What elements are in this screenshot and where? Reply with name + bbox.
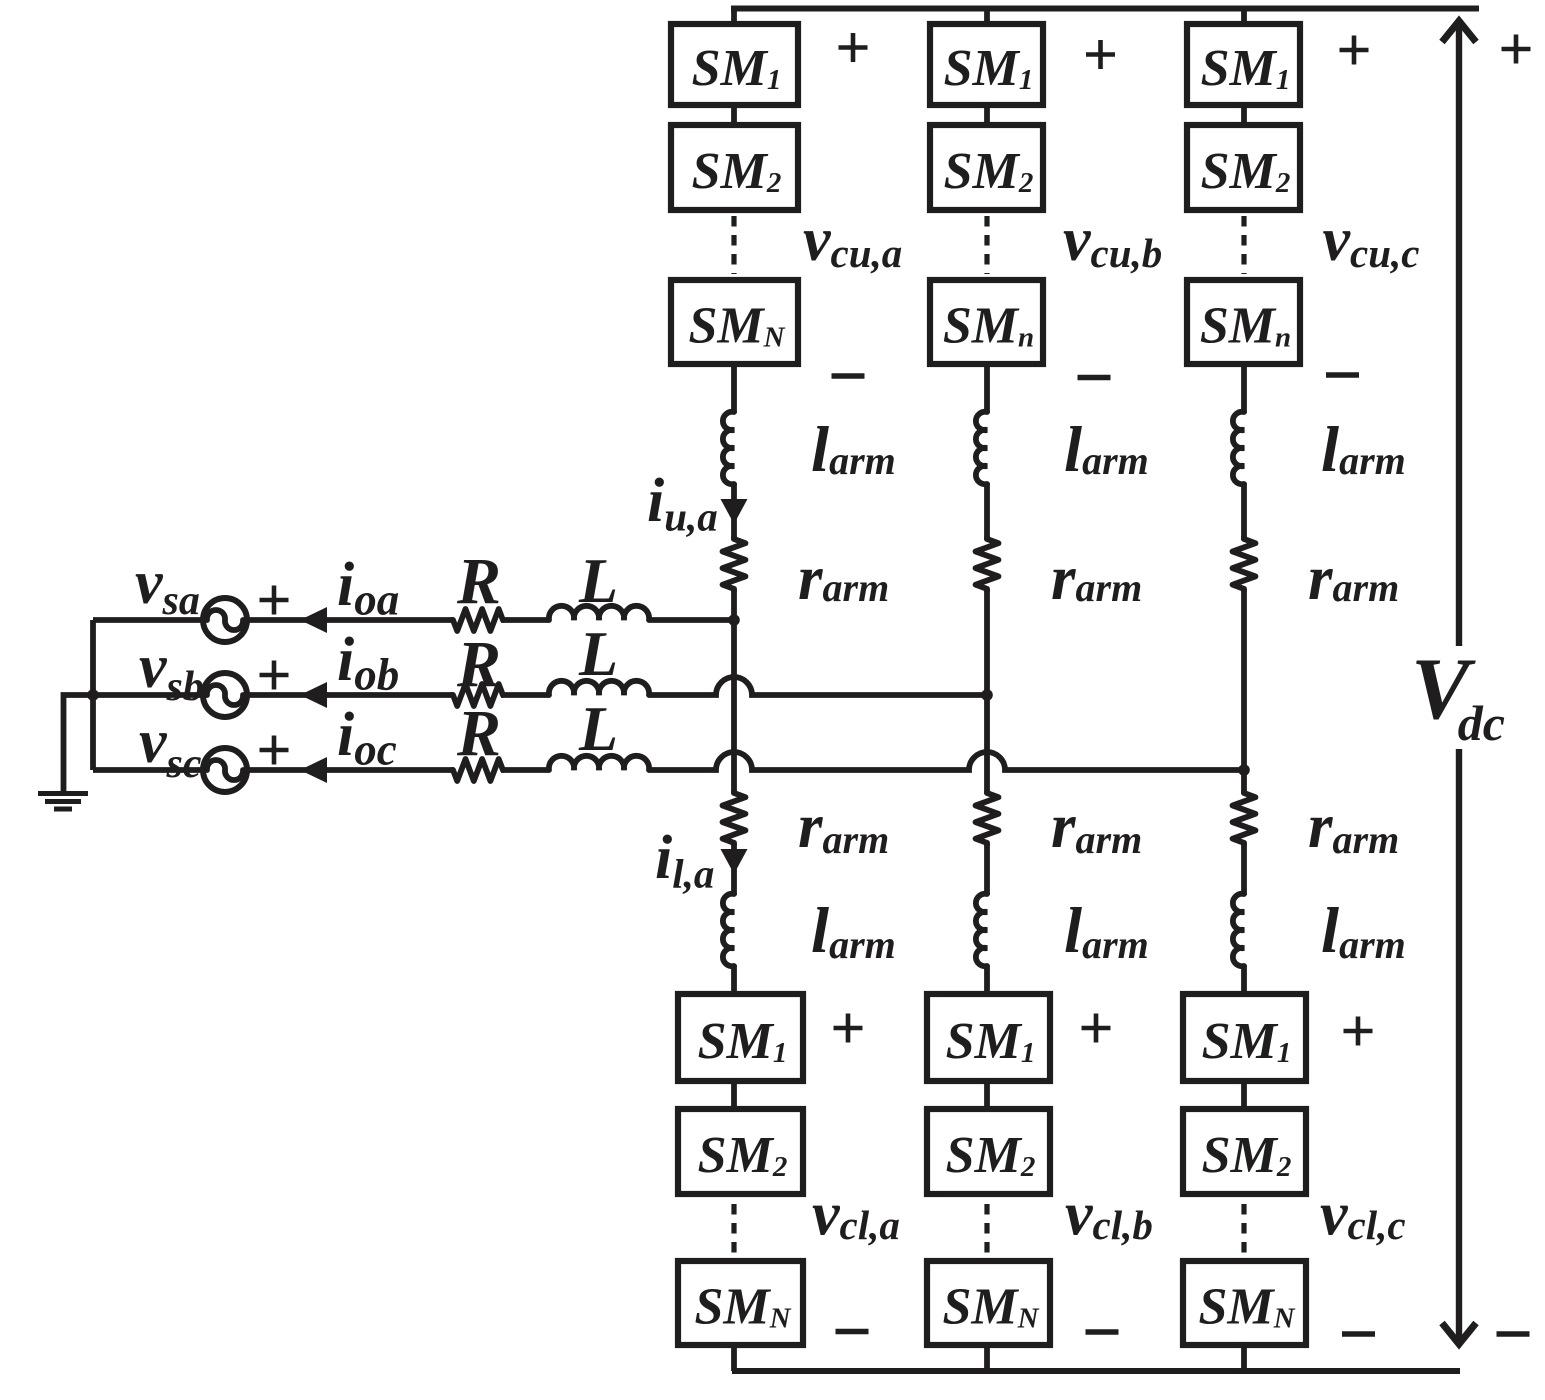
submodule SM1 box (upper arm, phase a): [671, 24, 798, 105]
label - (lower arm capacitor voltage, phase c): [1342, 1331, 1375, 1337]
AC source v_sc circle: [203, 748, 247, 792]
wire: left vertical bus joining three sources: [90, 620, 96, 770]
label - (lower arm capacitor voltage, phase b): [1086, 1329, 1119, 1335]
inductor l_arm (upper arm, phase a): [723, 412, 734, 484]
inductor l_arm (upper arm, phase b): [976, 412, 987, 484]
wire: dashed continuation SM2..SMN (lower arm, phase b): [984, 1204, 989, 1254]
ground symbol bar 1: [38, 791, 88, 796]
label - (upper arm capacitor voltage, phase a): [832, 373, 865, 379]
resistor R (phase b): [451, 684, 503, 706]
wire: dashed continuation SM2..SMN (lower arm, phase a): [731, 1204, 736, 1254]
svg-text:rarm: rarm: [798, 543, 889, 613]
svg-text:rarm: rarm: [1051, 543, 1142, 613]
submodule SM1 box (lower arm, phase c): [1183, 994, 1306, 1081]
wire: neutral junction to ground stem: [64, 695, 94, 791]
svg-text:vcl,c: vcl,c: [1320, 1181, 1406, 1249]
label + (upper arm capacitor voltage, phase b): [1086, 40, 1115, 69]
wire: dashed continuation SM2..SMN (upper arm, phase c): [1241, 216, 1246, 274]
wire: SM1-SM2 link (lower arm, phase c): [1241, 1078, 1247, 1112]
label - (upper arm capacitor voltage, phase c): [1326, 372, 1359, 378]
svg-text:larm: larm: [811, 895, 896, 967]
wire: inductor to resistor with current arrow (upper arm, phase a): [731, 483, 737, 540]
wire: SM1-SM2 link (upper arm, phase b): [984, 102, 990, 128]
wire: resistor to AC node (upper arm, phase a): [731, 589, 737, 620]
wire: inductor L to node c (hops over phase-a and phase-b legs): [649, 752, 1244, 770]
wire: lower SMN to bottom rail (phase c): [1241, 1342, 1247, 1371]
svg-text:vsa: vsa: [135, 549, 200, 624]
wire: top rail to upper SM1 phase c: [1241, 9, 1247, 28]
svg-text:L: L: [578, 693, 618, 764]
wire: top rail to upper SM1 phase b: [984, 9, 990, 28]
submodule SMN box (upper arm, phase a): [671, 280, 798, 364]
Vdc arrow lower chevron head: [1442, 1323, 1476, 1344]
wire: SM1-SM2 link (lower arm, phase b): [984, 1078, 990, 1112]
wire: bus to source v_sa: [93, 617, 204, 623]
svg-text:vcu,b: vcu,b: [1063, 206, 1162, 276]
submodule SM1 box (upper arm, phase c): [1187, 24, 1300, 105]
submodule SM2 box (upper arm, phase a): [671, 125, 798, 210]
wire: SM1-SM2 link (lower arm, phase a): [731, 1078, 737, 1112]
wire: lower SMN to bottom rail (phase a): [731, 1342, 737, 1371]
label + (source v_sa polarity): [260, 586, 289, 615]
svg-text:R: R: [456, 628, 501, 701]
resistor r_arm (upper arm, phase c): [1233, 537, 1256, 591]
wire: bus to source v_sc: [93, 767, 204, 773]
Vdc measurement arrow line (lower segment): [1456, 749, 1462, 1343]
node a (AC terminal junction): [728, 614, 740, 626]
wire: source to resistor R (phase b): [246, 692, 454, 698]
wire: lower inductor to SM1 (lower arm, phase b): [984, 965, 990, 997]
wire: AC node down to lower resistor (phase c): [1241, 770, 1247, 794]
svg-text:iob: iob: [337, 626, 399, 700]
current arrow i_oa (leftward): [300, 607, 327, 633]
node: source neutral junction: [87, 689, 99, 701]
svg-text:larm: larm: [811, 414, 896, 486]
wire: bus to source v_sb: [93, 692, 204, 698]
resistor r_arm (upper arm, phase b): [976, 537, 999, 591]
node b (AC terminal junction): [981, 689, 993, 701]
wire: inductor to resistor (upper arm, phase b): [984, 483, 990, 540]
svg-text:L: L: [578, 618, 618, 689]
wire: SMN to arm inductor (upper arm, phase c): [1241, 361, 1247, 413]
inductor l_arm (lower arm, phase b): [976, 894, 987, 966]
label + (upper arm capacitor voltage, phase c): [1340, 36, 1369, 65]
inductor L (phase c): [549, 756, 649, 770]
wire: lower resistor to lower inductor (phase b): [984, 843, 990, 895]
svg-text:ioa: ioa: [337, 551, 399, 625]
AC source v_sc sine wave: [207, 760, 243, 780]
label + (source v_sb polarity): [260, 661, 289, 690]
submodule SM2 box (lower arm, phase b): [927, 1109, 1050, 1194]
svg-text:vcu,c: vcu,c: [1323, 206, 1420, 276]
wire: resistor to AC node (upper arm, phase b): [984, 589, 990, 695]
wire: inductor to resistor (upper arm, phase c): [1241, 483, 1247, 540]
current arrow i_oc (leftward): [300, 757, 327, 783]
AC source v_sa sine wave: [207, 610, 243, 630]
wire: source to resistor R (phase c): [246, 767, 454, 773]
svg-text:rarm: rarm: [1308, 543, 1399, 613]
wire: inductor L to node b (hops over phase-a leg): [649, 677, 987, 695]
wire: SMN to arm inductor (upper arm, phase b): [984, 361, 990, 413]
ground symbol bar 2: [45, 799, 81, 804]
wire: resistor R to inductor L (phase a): [501, 617, 549, 623]
submodule SM2 box (lower arm, phase a): [678, 1109, 803, 1194]
submodule SMN box (lower arm, phase c): [1183, 1261, 1306, 1345]
current arrow i_l,a (downward): [721, 849, 748, 874]
AC source v_sa circle: [203, 598, 247, 642]
svg-text:ioc: ioc: [337, 701, 397, 775]
svg-text:rarm: rarm: [798, 791, 889, 862]
submodule SMN box (lower arm, phase a): [678, 1261, 803, 1345]
svg-text:larm: larm: [1064, 895, 1149, 967]
wire: lower SMN to bottom rail (phase b): [984, 1342, 990, 1371]
svg-text:rarm: rarm: [1051, 791, 1142, 862]
node c (AC terminal junction): [1238, 764, 1250, 776]
wire: AC node down to lower resistor (phase b): [984, 695, 990, 794]
resistor r_arm (upper arm, phase a): [723, 537, 746, 591]
wire: source to resistor R (phase a): [246, 617, 454, 623]
wire: lower resistor to lower inductor (phase a): [731, 843, 737, 895]
svg-text:R: R: [456, 545, 501, 618]
wire: dashed continuation SM2..SMN (upper arm, phase a): [731, 216, 736, 274]
svg-text:vsc: vsc: [139, 708, 202, 787]
wire: SM1-SM2 link (upper arm, phase a): [731, 102, 737, 128]
svg-text:iu,a: iu,a: [647, 467, 718, 540]
svg-text:vsb: vsb: [139, 633, 204, 710]
ground symbol bar 3: [54, 807, 72, 812]
label + (upper arm capacitor voltage, phase a): [839, 33, 868, 62]
label - (Vdc negative, right edge): [1497, 1331, 1530, 1337]
wire: lower resistor to lower inductor (phase c): [1241, 843, 1247, 895]
resistor R (phase a): [451, 609, 503, 631]
label - (upper arm capacitor voltage, phase b): [1078, 375, 1111, 381]
svg-text:vcu,a: vcu,a: [803, 206, 902, 276]
wire: lower inductor to SM1 (lower arm, phase c): [1241, 965, 1247, 997]
submodule SM1 box (lower arm, phase a): [678, 994, 803, 1081]
resistor r_arm (lower arm, phase a): [723, 791, 746, 845]
submodule SM1 box (upper arm, phase b): [930, 24, 1043, 105]
Vdc arrow upper chevron head: [1442, 21, 1476, 42]
submodule SMn box (upper arm, phase c): [1187, 280, 1300, 364]
label + (lower arm capacitor voltage, phase b): [1082, 1014, 1111, 1043]
wire: lower inductor to SM1 (lower arm, phase a): [731, 965, 737, 997]
wire: AC node down to lower resistor (phase a): [731, 620, 737, 794]
wire: top rail to upper SM1 phase a: [731, 9, 737, 28]
wire: inductor L to node a: [649, 617, 734, 623]
Vdc measurement arrow line (upper segment): [1456, 22, 1462, 646]
wire: bottom DC rail (negative bus): [732, 1368, 1460, 1374]
resistor R (phase c): [451, 759, 503, 781]
inductor L (phase a): [549, 606, 649, 620]
svg-text:L: L: [578, 545, 618, 616]
label - (lower arm capacitor voltage, phase a): [836, 1329, 869, 1335]
current arrow i_ob (leftward): [300, 682, 327, 708]
submodule SM2 box (upper arm, phase b): [930, 125, 1043, 210]
label + (Vdc positive, right edge): [1502, 35, 1531, 64]
inductor L (phase b): [549, 681, 649, 695]
label + (source v_sc polarity): [260, 736, 289, 765]
wire: resistor to AC node (upper arm, phase c): [1241, 589, 1247, 770]
svg-text:vcl,a: vcl,a: [812, 1181, 900, 1249]
wire: dashed continuation SM2..SMN (upper arm, phase b): [984, 216, 989, 274]
svg-text:vcl,b: vcl,b: [1065, 1181, 1153, 1249]
svg-text:larm: larm: [1064, 414, 1149, 486]
inductor l_arm (lower arm, phase c): [1233, 894, 1244, 966]
inductor l_arm (lower arm, phase a): [723, 894, 734, 966]
wire: SM1-SM2 link (upper arm, phase c): [1241, 102, 1247, 128]
wire: resistor R to inductor L (phase c): [501, 767, 549, 773]
wire: dashed continuation SM2..SMN (lower arm, phase c): [1241, 1204, 1246, 1254]
inductor l_arm (upper arm, phase c): [1233, 412, 1244, 484]
label + (lower arm capacitor voltage, phase c): [1344, 1017, 1373, 1046]
submodule SM1 box (lower arm, phase b): [927, 994, 1050, 1081]
svg-text:larm: larm: [1321, 895, 1406, 967]
submodule SMN box (lower arm, phase b): [927, 1261, 1050, 1345]
resistor r_arm (lower arm, phase c): [1233, 791, 1256, 845]
AC source v_sb circle: [203, 673, 247, 717]
AC source v_sb sine wave: [207, 685, 243, 705]
wire: resistor R to inductor L (phase b): [501, 692, 549, 698]
submodule SM2 box (lower arm, phase c): [1183, 1109, 1306, 1194]
submodule SMn box (upper arm, phase b): [930, 280, 1043, 364]
svg-text:R: R: [456, 697, 501, 770]
wire: SMN to arm inductor (upper arm, phase a): [731, 361, 737, 413]
wire: top DC rail (positive bus): [731, 6, 1479, 12]
resistor r_arm (lower arm, phase b): [976, 791, 999, 845]
svg-text:Vdc: Vdc: [1411, 641, 1505, 751]
submodule SM2 box (upper arm, phase c): [1187, 125, 1300, 210]
svg-text:il,a: il,a: [655, 824, 714, 897]
current arrow i_u,a (downward): [721, 499, 748, 524]
svg-text:rarm: rarm: [1308, 791, 1399, 862]
svg-text:larm: larm: [1321, 414, 1406, 486]
label + (lower arm capacitor voltage, phase a): [834, 1014, 863, 1043]
